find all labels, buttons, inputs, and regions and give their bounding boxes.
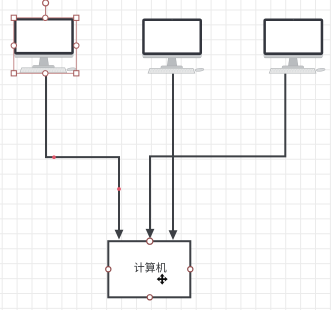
waypoint dot on wire W1 horizontal — [52, 155, 56, 159]
connection point W of box — [106, 267, 111, 272]
selection corner handle SW — [11, 71, 16, 76]
waypoint dot on wire W1 vertical — [117, 187, 121, 191]
rotation handle stem — [45, 6, 47, 15]
connection point S of box — [147, 295, 152, 300]
wire W1 from PC1 to box — [46, 73, 119, 230]
selection mid handle W — [11, 43, 16, 48]
selection mid handle N — [43, 15, 48, 20]
rotation handle — [43, 0, 49, 6]
computer PC2 — [142, 19, 204, 74]
arrowhead of wire W2 — [169, 230, 178, 240]
arrowhead of wire W3 — [146, 229, 155, 239]
selection corner handle SE — [74, 71, 79, 76]
wire W3 from PC3 to box — [150, 74, 285, 230]
selection corner handle NE — [74, 15, 79, 20]
connection point E of box — [188, 267, 193, 272]
selection outline of PC1 — [14, 18, 77, 74]
wire W2 from PC2 to box — [172, 74, 174, 231]
selection mid handle E — [74, 43, 79, 48]
selection corner handle NW — [11, 15, 16, 20]
computer PC3 — [263, 19, 325, 74]
selection mid handle S — [43, 71, 48, 76]
move cursor — [157, 274, 168, 285]
computer PC1 (selected) — [14, 18, 76, 73]
arrowhead of wire W1 — [115, 230, 124, 240]
label 计算机 — [134, 262, 166, 272]
connection point N of box — [147, 238, 153, 244]
node box 计算机 — [108, 241, 190, 297]
